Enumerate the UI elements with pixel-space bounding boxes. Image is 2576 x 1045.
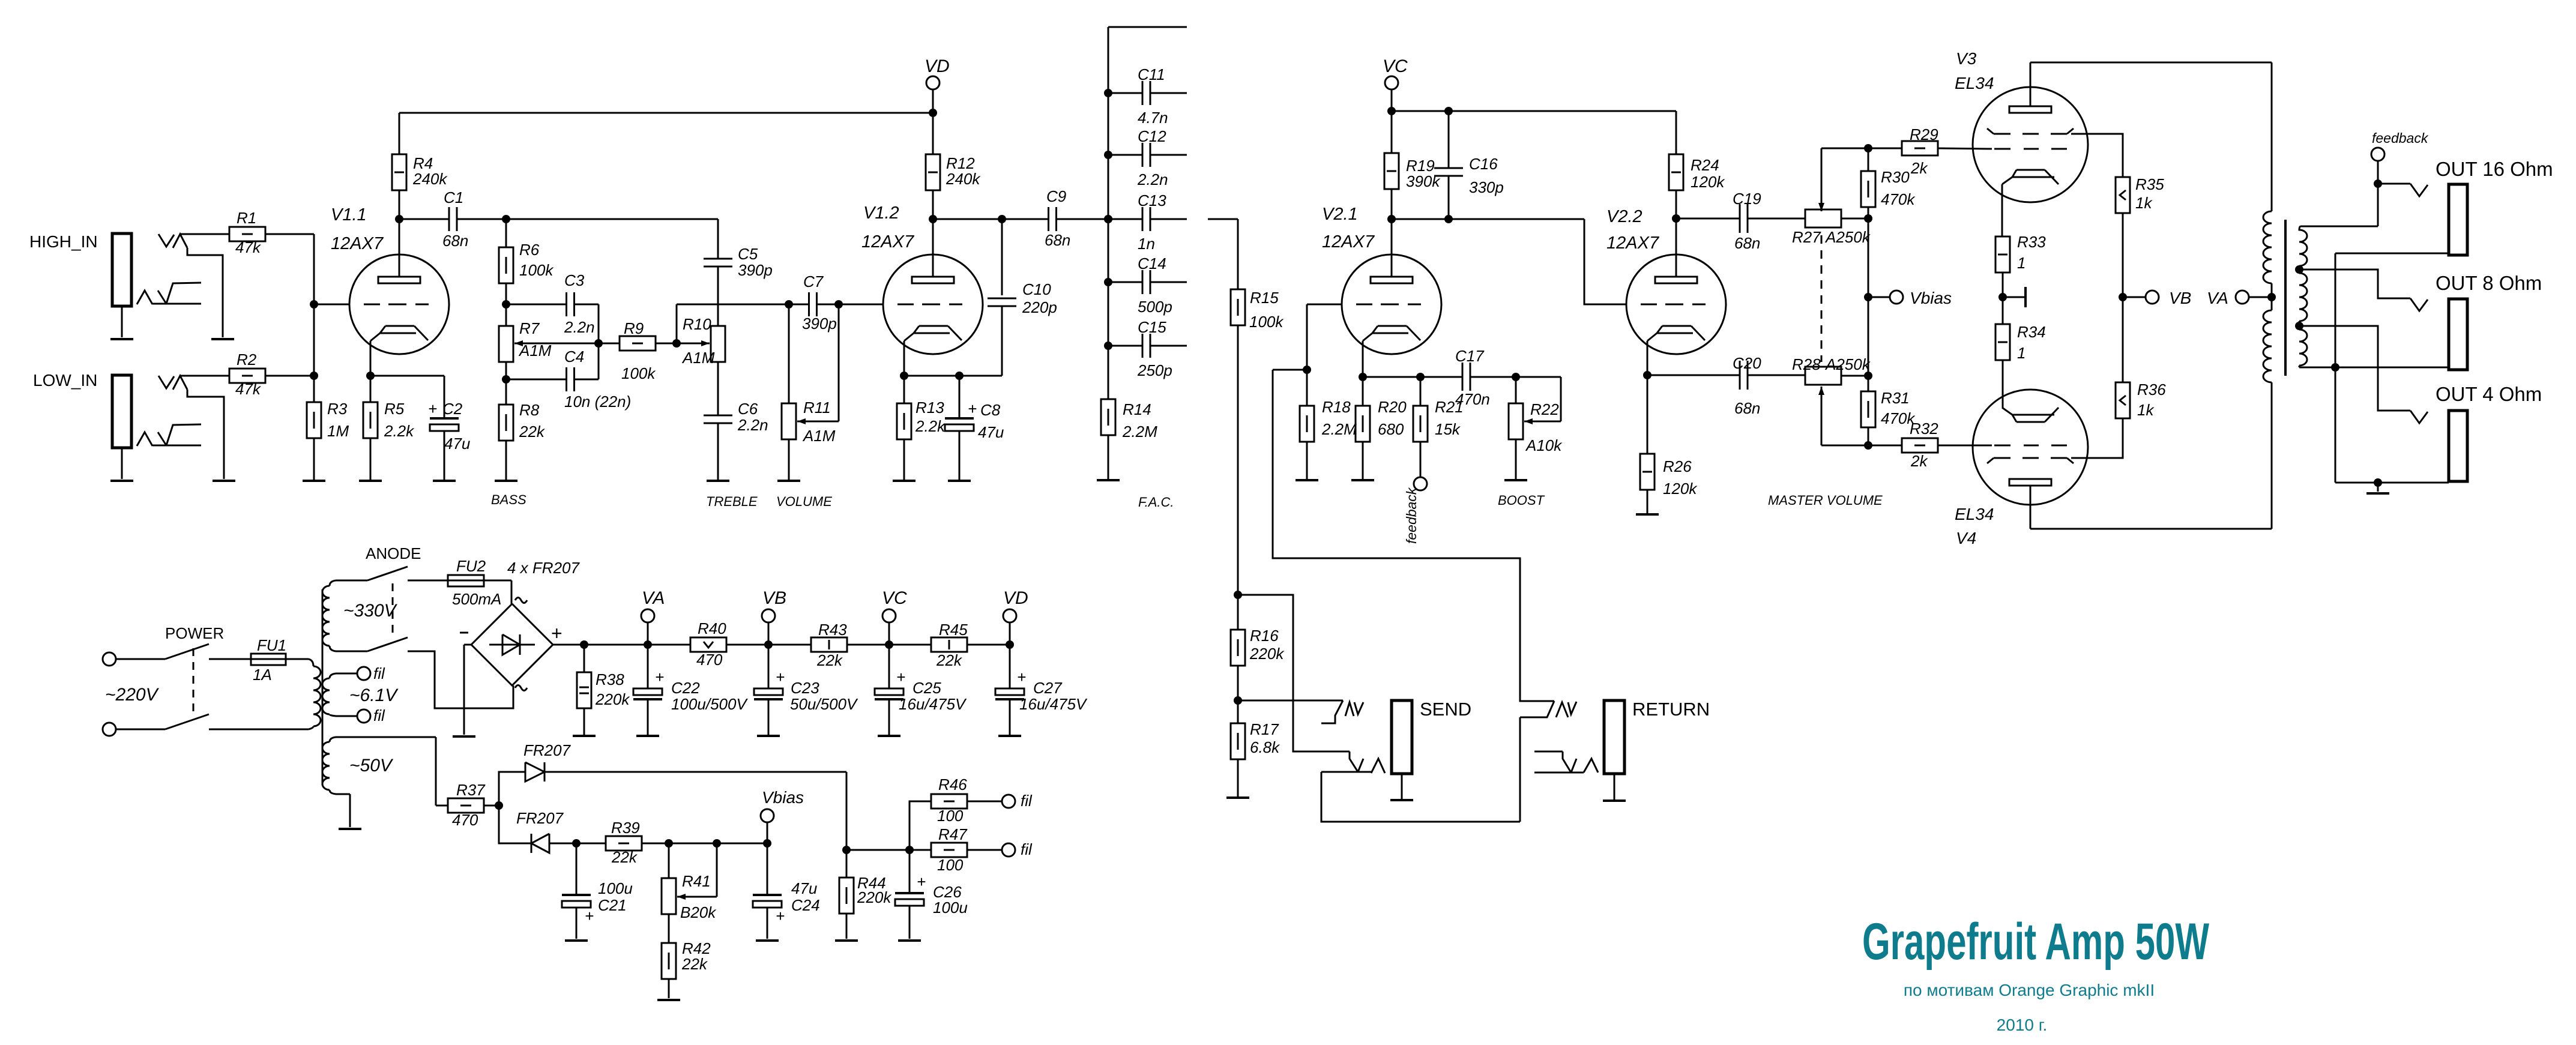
wire (R7 bottom to C4)	[505, 362, 507, 379]
transformer T1 winding ~330V	[330, 580, 367, 586]
ground (SEND)	[1401, 774, 1403, 800]
svg-text:47u: 47u	[791, 879, 817, 897]
svg-text:2010 г.: 2010 г.	[1997, 1016, 2048, 1034]
svg-text:A250k: A250k	[1824, 355, 1871, 373]
RETURN sleeve contact	[1534, 751, 1563, 753]
wire (V3 screen to R35)	[2071, 134, 2123, 177]
tube V4 EL34	[1973, 390, 2088, 505]
svg-text:68n: 68n	[1734, 399, 1760, 417]
wiper arrow R41	[716, 843, 718, 897]
svg-text:~330V: ~330V	[343, 601, 398, 621]
resistor R34 1	[2002, 297, 2004, 324]
node (FAC bus / signal)	[1104, 215, 1112, 223]
RETURN tip contact	[1520, 701, 1554, 717]
svg-text:12AX7: 12AX7	[1606, 233, 1660, 253]
potentiometer R27 A250k (master A)	[1805, 209, 1841, 227]
capacitor C24 47u electrolytic	[767, 843, 768, 895]
svg-text:10n (22n): 10n (22n)	[564, 393, 631, 411]
svg-text:OUT 16 Ohm: OUT 16 Ohm	[2436, 158, 2553, 180]
capacitor C27 16u/475V	[1009, 645, 1011, 688]
switch ANODE pole1	[367, 567, 408, 580]
svg-text:BOOST: BOOST	[1498, 493, 1545, 508]
capacitor C17 470n	[1462, 363, 1464, 391]
svg-text:R15: R15	[1250, 289, 1279, 307]
svg-text:1n: 1n	[1138, 235, 1155, 253]
wire (C9 to FAC bus)	[1057, 218, 1108, 220]
svg-text:R24: R24	[1691, 156, 1719, 174]
wire (C1 to tone node)	[457, 218, 506, 220]
ground (C24)	[767, 908, 768, 939]
svg-text:C27: C27	[1033, 679, 1063, 697]
svg-text:C2: C2	[442, 400, 463, 418]
node (V1.2 cathode)	[900, 372, 908, 380]
resistor R26 120k	[1647, 375, 1648, 454]
svg-text:V2.2: V2.2	[1606, 207, 1642, 226]
terminal fil B	[357, 709, 370, 723]
svg-text:~50V: ~50V	[349, 756, 394, 775]
wire (divider to SEND sleeve)	[1238, 595, 1350, 751]
potentiometer R10 A1M (treble)	[711, 326, 725, 362]
wire (common to OUT16 sleeve)	[2335, 253, 2449, 254]
wire (grid to V1.1)	[314, 304, 349, 306]
svg-text:R6: R6	[519, 241, 540, 259]
svg-text:C11: C11	[1138, 65, 1165, 83]
svg-text:FU2: FU2	[456, 557, 486, 575]
resistor R20 680	[1362, 377, 1364, 406]
resistor R44 220k	[846, 850, 848, 878]
LOW_IN ring contacts	[137, 432, 152, 446]
ground (bridge)	[453, 735, 475, 738]
svg-text:1M: 1M	[327, 422, 349, 440]
wire (C4 to mid node)	[575, 379, 599, 381]
wire (cathode to C2)	[370, 375, 444, 377]
node (R37 out)	[484, 805, 499, 807]
svg-text:C19: C19	[1733, 190, 1761, 208]
svg-text:R22: R22	[1530, 400, 1559, 418]
transformer T1 winding 50V	[330, 737, 436, 742]
node (secondary tap 8ohm)	[2295, 265, 2303, 274]
wire (R28 out)	[1841, 375, 1868, 377]
svg-text:16u/475V: 16u/475V	[1019, 695, 1088, 713]
tube V2.2 12AX7	[1626, 254, 1726, 354]
ground (R44)	[846, 914, 848, 939]
wire (HIGH_IN tip to R1)	[180, 233, 229, 235]
node (R16/R17 divider)	[1237, 666, 1239, 700]
svg-text:V1.2: V1.2	[863, 203, 899, 223]
terminal fil A	[357, 667, 370, 680]
svg-text:22k: 22k	[936, 651, 963, 669]
svg-text:HIGH_IN: HIGH_IN	[29, 232, 98, 251]
svg-text:A1M: A1M	[802, 427, 836, 445]
ground (C2)	[444, 431, 445, 481]
svg-text:C13: C13	[1138, 191, 1166, 209]
svg-text:FU1: FU1	[257, 636, 286, 654]
capacitor C21 100u electrolytic	[576, 843, 578, 895]
svg-text:2.2k: 2.2k	[915, 417, 946, 435]
svg-text:C12: C12	[1138, 127, 1166, 145]
wire (junction up to volume wire)	[676, 304, 678, 343]
svg-text:R46: R46	[938, 775, 967, 794]
node (V1.2 anode)	[929, 215, 937, 223]
svg-text:R38: R38	[596, 670, 624, 688]
wire (AC2 to bridge)	[408, 651, 513, 708]
node (FAC C13)	[1104, 215, 1112, 223]
ground (LOW_IN tip shunt)	[213, 480, 235, 482]
svg-text:100k: 100k	[519, 261, 554, 279]
svg-text:12AX7: 12AX7	[331, 234, 384, 253]
transformer T1 core	[322, 589, 324, 785]
ground (R18)	[1306, 442, 1308, 480]
svg-text:+: +	[655, 668, 664, 686]
capacitor C11 4.7n	[1108, 92, 1142, 94]
tube V1.1 12AX7	[349, 254, 449, 354]
wire (R29 to V3 grid)	[1938, 148, 1992, 149]
capacitor C20 68n	[1739, 361, 1741, 390]
svg-text:VA: VA	[642, 588, 665, 608]
potentiometer R7 A1M (bass)	[505, 304, 507, 326]
node (R9/R10 junction)	[656, 343, 677, 345]
svg-text:500mA: 500mA	[452, 590, 501, 608]
svg-text:R30: R30	[1881, 168, 1910, 186]
node (FAC C15)	[1104, 342, 1112, 350]
HIGH_IN tip contact	[158, 234, 174, 247]
svg-text:2.2k: 2.2k	[384, 422, 415, 440]
svg-text:220p: 220p	[1022, 298, 1057, 316]
resistor R33 1	[1995, 236, 2010, 273]
terminal Vbias (supply)	[761, 809, 774, 822]
switch POWER link (dashed)	[193, 648, 195, 715]
node (OT center tap)	[2267, 293, 2276, 301]
tube V3 EL34	[1973, 87, 2088, 202]
wire (secondary bottom)	[2299, 367, 2335, 369]
resistor R45 22k	[931, 637, 967, 652]
wire (R43 to VC)	[847, 644, 931, 646]
svg-text:VD: VD	[925, 56, 950, 76]
svg-text:SEND: SEND	[1420, 699, 1471, 720]
svg-text:R1: R1	[237, 209, 256, 227]
ground (HIGH_IN sleeve)	[110, 338, 133, 340]
svg-text:R11: R11	[803, 399, 831, 417]
jack SEND	[1392, 700, 1412, 774]
svg-text:+: +	[917, 873, 926, 891]
svg-text:120k: 120k	[1691, 173, 1725, 191]
node (tone stack input)	[502, 215, 510, 223]
wire (C5 to R10)	[717, 267, 719, 326]
resistor R19 390k	[1391, 111, 1393, 153]
ground (R13)	[903, 439, 905, 481]
node (R28/R31)	[1864, 372, 1872, 380]
svg-text:2k: 2k	[1910, 159, 1928, 177]
capacitor C19 68n	[1739, 204, 1741, 233]
svg-text:B20k: B20k	[680, 903, 717, 921]
capacitor C16 330p	[1448, 111, 1450, 168]
node (C16 top)	[1444, 107, 1453, 115]
node (VB rail)	[764, 640, 773, 649]
wire (anode lead V2.1)	[1391, 219, 1393, 277]
svg-text:390p: 390p	[802, 315, 837, 333]
terminal VA	[2236, 291, 2249, 304]
node (R11 top)	[785, 300, 793, 309]
wire (common to OUT8 sleeve)	[2335, 367, 2449, 369]
fuse FU1 1A	[251, 658, 309, 660]
svg-text:100k: 100k	[1249, 313, 1284, 331]
jack OUT 8 Ohm	[2449, 299, 2467, 370]
HIGH_IN ring contacts	[137, 291, 152, 304]
wire (to R44 node)	[846, 772, 848, 850]
resistor R13 2.2k	[903, 376, 905, 403]
svg-text:A1M: A1M	[681, 349, 715, 367]
svg-text:2k: 2k	[1910, 452, 1928, 470]
wire (V1.1 cathode)	[370, 341, 372, 376]
resistor R17 6.8k	[1237, 700, 1239, 723]
svg-text:+: +	[428, 400, 437, 418]
svg-text:C21: C21	[598, 896, 627, 914]
svg-text:R18: R18	[1322, 398, 1351, 416]
svg-text:100u: 100u	[933, 899, 968, 917]
terminal VB (supply)	[762, 609, 775, 622]
svg-text:120k: 120k	[1663, 480, 1698, 498]
wire (R21 to C17)	[1420, 376, 1462, 378]
svg-text:fil: fil	[1021, 792, 1033, 810]
potentiometer R22 A10k (boost)	[1515, 377, 1517, 403]
terminal VC (supply)	[882, 609, 896, 622]
wiper arrow R22	[1560, 377, 1562, 421]
wire (grid bus vertical)	[313, 234, 315, 376]
gang link R27-R28 (dashed)	[1821, 235, 1823, 362]
wire (bass node to C3)	[506, 304, 567, 306]
svg-text:C16: C16	[1469, 155, 1498, 173]
node (R32 tap)	[1864, 441, 1872, 450]
svg-text:R37: R37	[456, 781, 486, 799]
svg-text:2.2M: 2.2M	[1122, 423, 1157, 441]
transformer T1 winding 6.1V	[330, 673, 357, 678]
wire (bias chain)	[1868, 218, 1869, 376]
svg-text:A250k: A250k	[1824, 228, 1871, 246]
svg-text:~6.1V: ~6.1V	[349, 685, 399, 705]
node (bass bottom)	[502, 375, 510, 384]
wire (R27 out)	[1841, 218, 1868, 220]
node (secondary tap 4ohm)	[2295, 322, 2303, 330]
svg-text:47u: 47u	[978, 423, 1004, 441]
wire (FAC position 0)	[1108, 26, 1187, 28]
capacitor C23 50u/500V	[768, 645, 770, 688]
svg-text:C25: C25	[912, 679, 941, 697]
capacitor C14 500p	[1108, 282, 1142, 283]
svg-text:R16: R16	[1250, 627, 1279, 645]
wire (R32 to V4 grid)	[1938, 445, 1992, 447]
svg-text:V2.1: V2.1	[1322, 205, 1358, 224]
svg-text:C5: C5	[738, 245, 758, 263]
node (VC rail)	[885, 640, 893, 649]
svg-text:VD: VD	[1003, 588, 1028, 608]
svg-text:R8: R8	[519, 401, 540, 419]
terminal VA (supply)	[641, 609, 654, 622]
wire (R2 to node)	[265, 375, 314, 377]
capacitor C7 390p	[789, 304, 809, 306]
node (C10 top)	[998, 215, 1006, 223]
transformer T2 core	[2284, 220, 2287, 376]
svg-text:12AX7: 12AX7	[861, 232, 915, 251]
ground (C25)	[888, 699, 890, 735]
node (R38 top)	[580, 640, 588, 649]
svg-text:R43: R43	[818, 621, 847, 639]
svg-text:V1.1: V1.1	[331, 205, 367, 224]
wire (C20 to R28)	[1748, 375, 1805, 376]
wire (common to OUT4 sleeve)	[2335, 482, 2449, 484]
node (bass top)	[502, 300, 510, 309]
svg-text:feedback: feedback	[2372, 130, 2429, 146]
terminal mains N	[103, 723, 116, 736]
svg-text:+: +	[776, 907, 785, 925]
resistor R24 120k	[1669, 154, 1683, 190]
wire (to C9)	[1002, 218, 1048, 220]
ground (C6)	[717, 423, 719, 481]
svg-text:68n: 68n	[442, 232, 468, 250]
svg-text:1: 1	[2017, 344, 2026, 362]
svg-text:220k: 220k	[1249, 645, 1285, 663]
svg-text:2.2n: 2.2n	[564, 318, 595, 336]
resistor R18 2.2M	[1306, 370, 1308, 406]
svg-text:BASS: BASS	[491, 492, 526, 507]
node (VD rail)	[1006, 640, 1014, 649]
node (V2.1 anode)	[1387, 215, 1396, 223]
svg-text:15k: 15k	[1435, 420, 1461, 438]
capacitor C4 10n	[506, 379, 567, 381]
svg-text:68n: 68n	[1045, 231, 1070, 249]
node (Vbias tap)	[1864, 293, 1872, 301]
ground (C23)	[768, 699, 770, 735]
wire (anode node to C1)	[399, 218, 449, 220]
svg-text:R29: R29	[1910, 125, 1938, 143]
resistor R39 22k	[576, 843, 606, 845]
ground (R20)	[1362, 442, 1364, 480]
ground (RETURN)	[1614, 774, 1615, 800]
wire (V2.1 grid to RETURN tip)	[1273, 370, 1554, 701]
wire (R6 to bass node)	[505, 283, 507, 304]
svg-text:470n: 470n	[1455, 390, 1490, 408]
wire (V4 anode to OT)	[2030, 486, 2032, 529]
ground (R26)	[1647, 490, 1648, 514]
capacitor C15 250p	[1108, 345, 1142, 347]
terminal fil (R47)	[967, 849, 1002, 851]
wire (R34 to V4 cathode)	[2002, 360, 2004, 408]
svg-text:VC: VC	[1383, 56, 1408, 76]
switch POWER pole1	[116, 658, 165, 660]
svg-text:4 x FR207: 4 x FR207	[507, 559, 580, 577]
wiper R28 feed	[1821, 445, 1868, 447]
node (R27/R30)	[1864, 214, 1872, 223]
node (R41 top)	[642, 843, 669, 845]
wire (SEND sleeve to RETURN common)	[1321, 772, 1520, 822]
node (V2.2 cathode)	[1643, 371, 1651, 379]
terminal mains L	[103, 652, 116, 666]
svg-text:16u/475V: 16u/475V	[899, 695, 967, 713]
svg-text:R26: R26	[1663, 457, 1692, 475]
svg-text:47u: 47u	[444, 435, 470, 453]
resistor R14 2.2M	[1101, 399, 1115, 435]
tube V2.1 12AX7	[1342, 254, 1441, 354]
wire (FAC bus)	[1108, 27, 1109, 399]
transformer T2 secondary	[2300, 226, 2378, 227]
ground (R5)	[370, 438, 372, 481]
svg-text:+: +	[776, 668, 785, 686]
node (C16 bottom)	[1444, 215, 1453, 223]
resistor R36 1k	[2122, 297, 2124, 382]
wire (V1.2 cathode)	[903, 341, 905, 376]
node (FAC C11)	[1104, 89, 1112, 97]
svg-text:VC: VC	[882, 588, 907, 608]
resistor R12 240k	[932, 113, 934, 154]
svg-text:C10: C10	[1022, 280, 1051, 298]
resistor R29 2k	[1868, 148, 1902, 149]
svg-text:C8: C8	[980, 401, 1001, 419]
svg-text:POWER: POWER	[165, 624, 224, 642]
ground (LOW_IN sleeve)	[110, 480, 133, 482]
ground (R11)	[788, 439, 790, 481]
svg-text:22k: 22k	[816, 651, 843, 669]
svg-text:FR207: FR207	[523, 741, 572, 759]
node (V2.2 anode)	[1672, 214, 1680, 223]
node (R41 wiper feed)	[669, 843, 717, 845]
svg-text:R36: R36	[2137, 381, 2166, 399]
wire (R4 to anode node)	[399, 190, 400, 219]
terminal feedback (output)	[2371, 148, 2384, 161]
resistor R38 220k	[584, 645, 585, 672]
svg-text:47k: 47k	[235, 238, 262, 256]
svg-text:22k: 22k	[681, 955, 708, 973]
node (grid V1.1)	[310, 300, 318, 309]
wire (R44 node to R46/R47)	[846, 849, 909, 851]
capacitor C2 47u electrolytic	[444, 376, 445, 418]
node (R29 tap)	[1864, 144, 1872, 152]
resistor R9 100k	[599, 343, 620, 345]
wire (R40 to VB)	[726, 644, 811, 646]
node (secondary common)	[2331, 363, 2339, 372]
node (V2.1 grid net)	[1303, 366, 1311, 374]
svg-text:2.2n: 2.2n	[737, 416, 768, 434]
potentiometer R11 A1M (volume)	[788, 304, 790, 403]
SEND sleeve contact	[1350, 751, 1358, 772]
svg-text:VOLUME: VOLUME	[776, 494, 832, 509]
potentiometer R41 B20k	[668, 843, 670, 878]
node (R2/R3 junction)	[310, 372, 318, 380]
wire (bridge minus to ground)	[464, 644, 471, 646]
capacitor C6 2.2n	[717, 362, 719, 415]
wire (FAC pickup)	[1208, 218, 1238, 220]
svg-text:A10k: A10k	[1525, 436, 1563, 454]
wire (cathode to C20)	[1647, 375, 1740, 376]
wire (cathode to R21)	[1363, 376, 1420, 378]
diode FR207 (filament boost)	[499, 772, 525, 806]
svg-text:EL34: EL34	[1955, 74, 1994, 92]
svg-text:feedback: feedback	[1404, 487, 1419, 544]
svg-text:47k: 47k	[235, 380, 262, 398]
node (R15/R16)	[1234, 591, 1242, 599]
wire (R35 to VB)	[2122, 213, 2124, 297]
svg-text:+: +	[896, 668, 905, 686]
SEND tip contact	[1321, 700, 1343, 723]
node (R22 top)	[1512, 373, 1520, 381]
wiper arrow R11	[838, 304, 840, 421]
svg-text:C24: C24	[791, 896, 820, 914]
wire (V2.2 cathode)	[1647, 341, 1648, 375]
wiper arrow R7	[514, 343, 599, 345]
node (VD rail)	[929, 109, 937, 117]
wire (50V to R37)	[435, 737, 437, 806]
resistor R37 470	[436, 805, 448, 807]
wire (anode lead V1.2)	[932, 219, 934, 277]
svg-text:C20: C20	[1733, 354, 1761, 372]
